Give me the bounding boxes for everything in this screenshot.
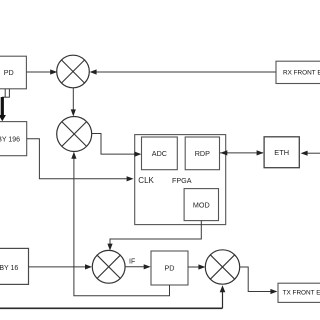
thick arrow PD to divider BY 196 bbox=[0, 89, 9, 121]
box RX FRONT END (clipped right) bbox=[276, 61, 320, 83]
svg-text:FPGA: FPGA bbox=[172, 176, 192, 185]
svg-text:ETH: ETH bbox=[274, 148, 289, 157]
svg-text:MOD: MOD bbox=[193, 200, 210, 209]
svg-text:RDP: RDP bbox=[195, 149, 210, 158]
wire PD to mixer M4 bbox=[188, 264, 205, 269]
box ETH bbox=[264, 137, 299, 168]
svg-text:BY 16: BY 16 bbox=[0, 265, 18, 272]
wire mixer M3 to PD bbox=[125, 264, 151, 269]
svg-text:PD: PD bbox=[4, 68, 14, 77]
wire RDP to ETH (bidirectional) bbox=[220, 150, 264, 155]
wire reference line bottom to mixer M4 bbox=[0, 285, 225, 308]
mixer M1 bbox=[57, 55, 90, 88]
wire PD to mixer M1 bbox=[26, 69, 57, 74]
wire node J1 up to mixer M2 bbox=[71, 152, 76, 179]
svg-text:PD: PD bbox=[165, 264, 175, 273]
svg-text:RX FRONT EN: RX FRONT EN bbox=[283, 70, 320, 77]
box ADC bbox=[142, 137, 178, 170]
wire BY 196 to FPGA CLK input (junction node J1 at x=74) bbox=[27, 139, 134, 182]
wire node J1 down through node J2 to PD bottom bbox=[74, 179, 170, 296]
box RDP bbox=[185, 137, 219, 170]
mixer M2 bbox=[57, 117, 92, 152]
mixer M4 bbox=[205, 250, 239, 284]
box PD (phase detector, top-left, clipped) bbox=[0, 56, 26, 89]
mixer M3 bbox=[92, 250, 125, 283]
wire mixer M4 to TX FRONT END bbox=[240, 267, 278, 294]
wire BY 16 to mixer M3 (through junction node J2) bbox=[29, 264, 93, 269]
wire MOD to mixer M3 bbox=[107, 221, 201, 251]
wire right edge to ETH bbox=[301, 151, 320, 156]
box TX FRONT END (clipped right) bbox=[278, 283, 320, 302]
svg-text:IF: IF bbox=[129, 259, 135, 266]
box MOD bbox=[184, 189, 218, 221]
box PD (bottom phase detector) bbox=[151, 251, 188, 285]
svg-text:TX FRONT EN: TX FRONT EN bbox=[283, 290, 320, 297]
svg-text:CLK: CLK bbox=[138, 176, 154, 185]
box divider BY 16 (clipped left) bbox=[0, 248, 29, 284]
wire RX FRONT END to mixer M1 bbox=[90, 69, 276, 74]
svg-text:ADC: ADC bbox=[152, 149, 167, 158]
wire mixer M2 to ADC bbox=[92, 134, 142, 157]
box divider BY 196 (clipped left) bbox=[0, 122, 27, 156]
box FPGA bbox=[135, 135, 226, 225]
svg-text:BY 196: BY 196 bbox=[0, 137, 20, 144]
wire mixer M1 to mixer M2 bbox=[71, 88, 76, 117]
